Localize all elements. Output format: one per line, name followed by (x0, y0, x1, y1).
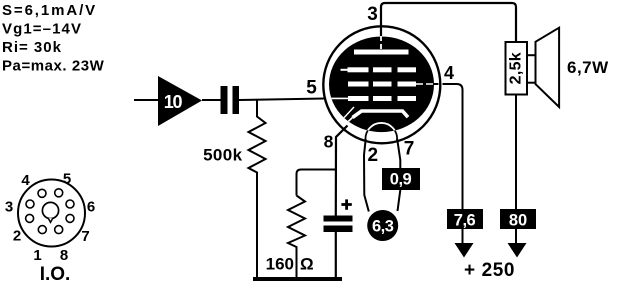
grid g2 row (348, 82, 416, 87)
resistor R2 160 ohm zigzag (288, 196, 305, 279)
capacitor C1 coupling (221, 86, 240, 114)
wire pin2 heater (364, 139, 369, 212)
svg-text:500k: 500k (203, 146, 243, 165)
socket pin 2 (26, 214, 34, 222)
label 80 box (500, 209, 536, 230)
arrow supply left (455, 243, 474, 258)
wire pin4 corner down (446, 84, 463, 244)
plus sign (341, 199, 351, 209)
svg-text:Vg1=–14V: Vg1=–14V (2, 21, 82, 38)
cathode (353, 111, 409, 118)
socket pin 7 (66, 214, 74, 222)
svg-text:2: 2 (13, 228, 21, 245)
wire pin4 (g2) dashed exit (433, 83, 448, 85)
socket pin 6 (66, 200, 74, 208)
heater supply 6,3 (367, 210, 398, 241)
svg-text:2: 2 (368, 145, 379, 166)
svg-text:7: 7 (81, 228, 89, 245)
wire input (134, 99, 158, 101)
speaker connector wires (527, 54, 536, 56)
svg-text:5: 5 (63, 171, 71, 188)
svg-text:S=6,1mA/V: S=6,1mA/V (2, 2, 97, 19)
wire arrow to capacitor (202, 99, 221, 101)
svg-text:6,7W: 6,7W (567, 58, 609, 77)
svg-text:+ 250: + 250 (464, 260, 515, 281)
svg-text:I.O.: I.O. (40, 264, 71, 284)
svg-text:7: 7 (404, 139, 415, 160)
svg-text:80: 80 (509, 212, 527, 230)
socket pin 4 (38, 189, 46, 197)
socket key tab (48, 218, 53, 222)
svg-text:3: 3 (5, 199, 13, 216)
svg-text:Pa=max. 23W: Pa=max. 23W (2, 58, 105, 75)
resistor R1 500k (203, 100, 265, 278)
svg-text:160: 160 (266, 255, 294, 274)
svg-text:2,5k: 2,5k (508, 52, 525, 84)
anode plate (354, 50, 409, 55)
tube V1 envelope (323, 26, 440, 143)
tube V1 black interior (329, 37, 434, 133)
arrow supply right (508, 243, 527, 258)
svg-text:7,6: 7,6 (454, 212, 476, 230)
wire below transformer (515, 95, 517, 245)
svg-text:1: 1 (33, 247, 41, 264)
g2 lead to pin4 (416, 83, 434, 85)
socket pin 5 (55, 189, 63, 197)
svg-text:10: 10 (164, 92, 183, 112)
g3 internal diagonal (340, 107, 354, 122)
heater arc outside envelope (366, 123, 398, 141)
socket I.O. outline (18, 180, 85, 247)
svg-text:0,9: 0,9 (390, 171, 412, 189)
svg-text:4: 4 (444, 63, 454, 83)
socket key center (42, 202, 58, 218)
wire capacitor to grid pin5 (239, 99, 325, 101)
transformer primary 2,5k box (506, 42, 528, 95)
resistor R2 160 ohm branch wire (297, 170, 336, 196)
grid g1 row (348, 96, 416, 101)
svg-text:Ri= 30k: Ri= 30k (2, 39, 62, 56)
anode lead dashes (pin3) (380, 36, 382, 49)
g1 lead to pin5 (327, 97, 348, 99)
socket pin 3 (26, 200, 34, 208)
socket pin 8 (55, 226, 63, 234)
label 7,6 box (447, 209, 483, 230)
wire pin3 to transformer (381, 3, 516, 42)
wire pin8 down (336, 126, 348, 279)
wire pin7 heater (397, 139, 400, 211)
svg-text:6,3: 6,3 (372, 218, 394, 236)
heater arc (366, 123, 398, 141)
socket pin 1 (38, 226, 46, 234)
svg-text:5: 5 (306, 78, 317, 99)
ground rail (253, 277, 342, 281)
grid g3 row (341, 67, 417, 72)
capacitor C2 electrolytic (324, 216, 353, 233)
speaker cone (536, 28, 560, 107)
label 0,9 box (382, 168, 420, 190)
svg-text:4: 4 (21, 172, 30, 189)
svg-text:Ω: Ω (300, 255, 314, 274)
svg-text:8: 8 (60, 247, 68, 264)
svg-text:3: 3 (367, 4, 378, 25)
svg-text:8: 8 (324, 132, 334, 152)
input arrow with 10 (158, 76, 202, 126)
cathode lead to pin8 (345, 118, 353, 126)
svg-text:6: 6 (87, 199, 95, 216)
